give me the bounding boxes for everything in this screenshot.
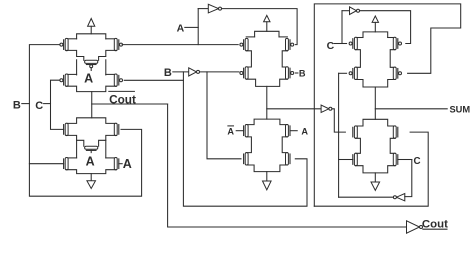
ground symbol (right cell) <box>371 173 380 191</box>
wire inner node left cell <box>66 50 116 75</box>
svg-text:C: C <box>35 100 43 112</box>
ground symbol (left cell) <box>87 174 96 189</box>
svg-text:A: A <box>177 23 185 35</box>
wire net B to N4 gate <box>29 163 63 165</box>
transistor N2 (NMOS, gate B) <box>114 123 119 135</box>
transistor N9 (NMOS, gate B) <box>286 153 291 165</box>
transistor P2 (PMOS, gate A) <box>114 38 122 50</box>
label A (N7 gate) <box>290 126 308 136</box>
wire top rail right cell <box>363 32 388 38</box>
wire U5 input from net C <box>405 160 412 197</box>
transistor P11 (PMOS, gate C-bar) <box>393 37 401 49</box>
transistor P10 (PMOS, gate C) <box>349 37 357 49</box>
wire B label dash <box>22 103 30 105</box>
wire A label to junction <box>185 26 198 28</box>
transistor N1 (NMOS, gate C) <box>64 123 69 135</box>
node Cout-bar vertical <box>91 92 93 118</box>
inverter U2 (B invert) <box>189 68 200 76</box>
transistor N4 (NMOS, gate B) <box>64 158 69 170</box>
svg-text:A: A <box>86 155 95 169</box>
transistor P8 (PMOS, gate B-bar) <box>240 67 248 79</box>
transistor P9 (PMOS, gate B) <box>286 67 294 79</box>
wire bottom rail middle NMOS cell <box>246 165 287 172</box>
wire bottom rail left PMOS cell <box>66 86 116 91</box>
wire inverter U3 input (net C) <box>342 11 350 44</box>
wire C label to P10 gate <box>334 43 346 45</box>
transistor P13 (PMOS, gate X) <box>393 67 401 79</box>
svg-text:B: B <box>164 67 172 79</box>
svg-text:B: B <box>299 68 306 78</box>
transistor P7 (PMOS, gate A-bar) <box>286 38 294 50</box>
svg-text:A: A <box>227 126 234 136</box>
svg-text:SUM: SUM <box>449 105 470 115</box>
wire top rail left cell <box>77 34 106 39</box>
wire net A vertical <box>197 9 199 45</box>
svg-text:C: C <box>327 40 335 52</box>
wire row2 top leads left NMOS cell <box>66 157 116 159</box>
power VDD symbol (left Cout PMOS cell) <box>88 19 95 34</box>
transistor P5 (PMOS, gate B) <box>114 74 122 86</box>
wire inner verticals right NMOS cell <box>355 138 395 153</box>
wire P5 gate to net B <box>124 79 183 81</box>
wire net A-bar from U1 <box>222 9 298 45</box>
wire bottom rail left NMOS cell <box>66 170 116 174</box>
wire row2 top leads left cell <box>66 73 116 75</box>
transistor P6 (PMOS, gate A) <box>240 38 248 50</box>
power VDD symbol (right PMOS cell) <box>372 16 378 32</box>
wire C label dash <box>44 103 51 105</box>
wire top rail middle NMOS cell <box>246 119 287 125</box>
node SUM vertical <box>374 87 376 119</box>
wire Cout-bar horizontal <box>92 103 168 105</box>
wire SUM output <box>375 108 447 110</box>
transistor P4 (PMOS, gate C) <box>60 74 68 86</box>
transistor N13 (NMOS, gate C) <box>393 153 398 165</box>
label C (N13 gate) <box>398 156 421 167</box>
transistor N12 (NMOS, gate C-bar fb) <box>353 153 358 165</box>
transistor N8 (NMOS, gate B-bar) <box>244 153 248 165</box>
inverter U1 (A invert) <box>208 4 221 13</box>
wire B label to inverter <box>173 71 189 73</box>
wire inner verticals middle cell <box>246 51 287 67</box>
transistor P12 (PMOS, gate C-bar fb) <box>349 67 357 79</box>
wire node X to right column <box>267 108 321 110</box>
wire row1 source leads left cell <box>66 38 116 40</box>
wire top rail left NMOS cell <box>66 118 116 124</box>
transistor N3 (NMOS mini, gate A) <box>85 146 98 152</box>
wire net A horizontal <box>122 44 238 46</box>
wire inner verticals right cell <box>355 50 395 68</box>
svg-text:C: C <box>413 156 420 167</box>
wire feedback loop (net X routing box) <box>314 4 460 206</box>
wire net B-bar vertical <box>207 72 241 159</box>
transistor N11 (NMOS, gate X) <box>393 126 398 138</box>
wire inverter U1 input <box>198 8 208 10</box>
inverter U5 (C invert bottom, feedback) <box>393 194 404 201</box>
wire net C vertical <box>51 80 64 129</box>
wire inner node left NMOS cell <box>66 135 116 158</box>
wire net B vertical <box>29 45 141 197</box>
wire top rail middle cell <box>255 31 279 37</box>
wire bottom rail middle cell <box>246 79 287 86</box>
node X vertical (middle cells join) <box>266 86 268 119</box>
power VDD symbol (middle PMOS cell) <box>264 15 270 31</box>
label Cout-bar <box>109 91 136 106</box>
wire net C-bar-fb vertical <box>339 73 347 197</box>
wire loop bottom to N11 gate <box>314 132 428 206</box>
transistor P1 (PMOS, gate B) <box>60 38 68 50</box>
transistor P3 (PMOS mini, gate A) <box>85 60 98 70</box>
inverter U3 (C invert top) <box>350 7 360 15</box>
wire net B vertical (to loop) <box>183 72 307 206</box>
transistor N5 (NMOS, gate A) <box>114 158 119 170</box>
inverter U4 (X invert) <box>321 105 332 112</box>
wire top rail right NMOS cell <box>355 119 395 126</box>
wire bottom rail right cell <box>355 80 395 88</box>
transistor N10 (NMOS, gate X-bar) <box>353 126 358 138</box>
svg-text:A: A <box>301 126 308 136</box>
wire N12 gate to C-bar-fb <box>339 159 353 161</box>
label A (N5 gate) <box>119 157 132 171</box>
inverter U6 (Cout driver) <box>407 221 423 233</box>
ground symbol (middle cell) <box>263 172 272 190</box>
wire U5 output to net C-bar-fb <box>339 196 394 198</box>
wire inner verticals middle NMOS cell <box>246 137 287 153</box>
wire row1 source leads right cell <box>355 37 395 39</box>
wire net B-bar from U2 <box>200 71 239 73</box>
wire net C-bar from U3 <box>360 11 411 44</box>
wire net X-bar from U4 <box>332 109 346 132</box>
label A-bar (N6 gate) <box>227 126 243 136</box>
transistor N6 (NMOS, gate A-bar) <box>244 125 248 137</box>
wire bottom rail right NMOS cell <box>355 166 395 173</box>
transistor N7 (NMOS, gate A) <box>286 125 291 137</box>
wire net Cout-bar to output inverter <box>168 104 407 227</box>
svg-text:A: A <box>123 157 132 171</box>
svg-text:A: A <box>84 72 93 86</box>
label Cout output <box>422 219 448 231</box>
svg-text:B: B <box>13 100 21 112</box>
wire row1 source leads middle cell <box>246 36 287 38</box>
label B (P9 gate) <box>295 68 306 78</box>
